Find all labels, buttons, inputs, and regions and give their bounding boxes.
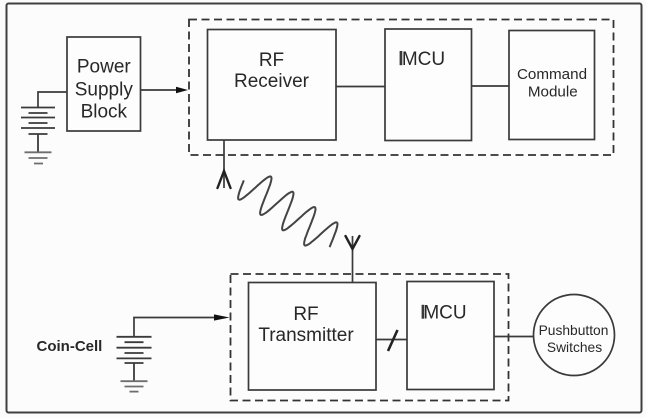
svg-text:Pushbutton: Pushbutton — [539, 323, 609, 338]
svg-text:Coin-Cell: Coin-Cell — [37, 338, 103, 355]
svg-text:Block: Block — [81, 102, 128, 123]
svg-text:RF: RF — [259, 50, 284, 71]
svg-text:Supply: Supply — [75, 80, 134, 101]
svg-text:Switches: Switches — [547, 340, 602, 355]
svg-text:MCU: MCU — [402, 49, 445, 70]
svg-text:Module: Module — [528, 84, 578, 101]
svg-text:Command: Command — [517, 66, 587, 83]
svg-text:Transmitter: Transmitter — [258, 325, 354, 346]
svg-text:Power: Power — [77, 57, 132, 78]
svg-text:Receiver: Receiver — [234, 71, 310, 92]
svg-text:RF: RF — [293, 304, 318, 325]
svg-text:MCU: MCU — [423, 303, 466, 324]
